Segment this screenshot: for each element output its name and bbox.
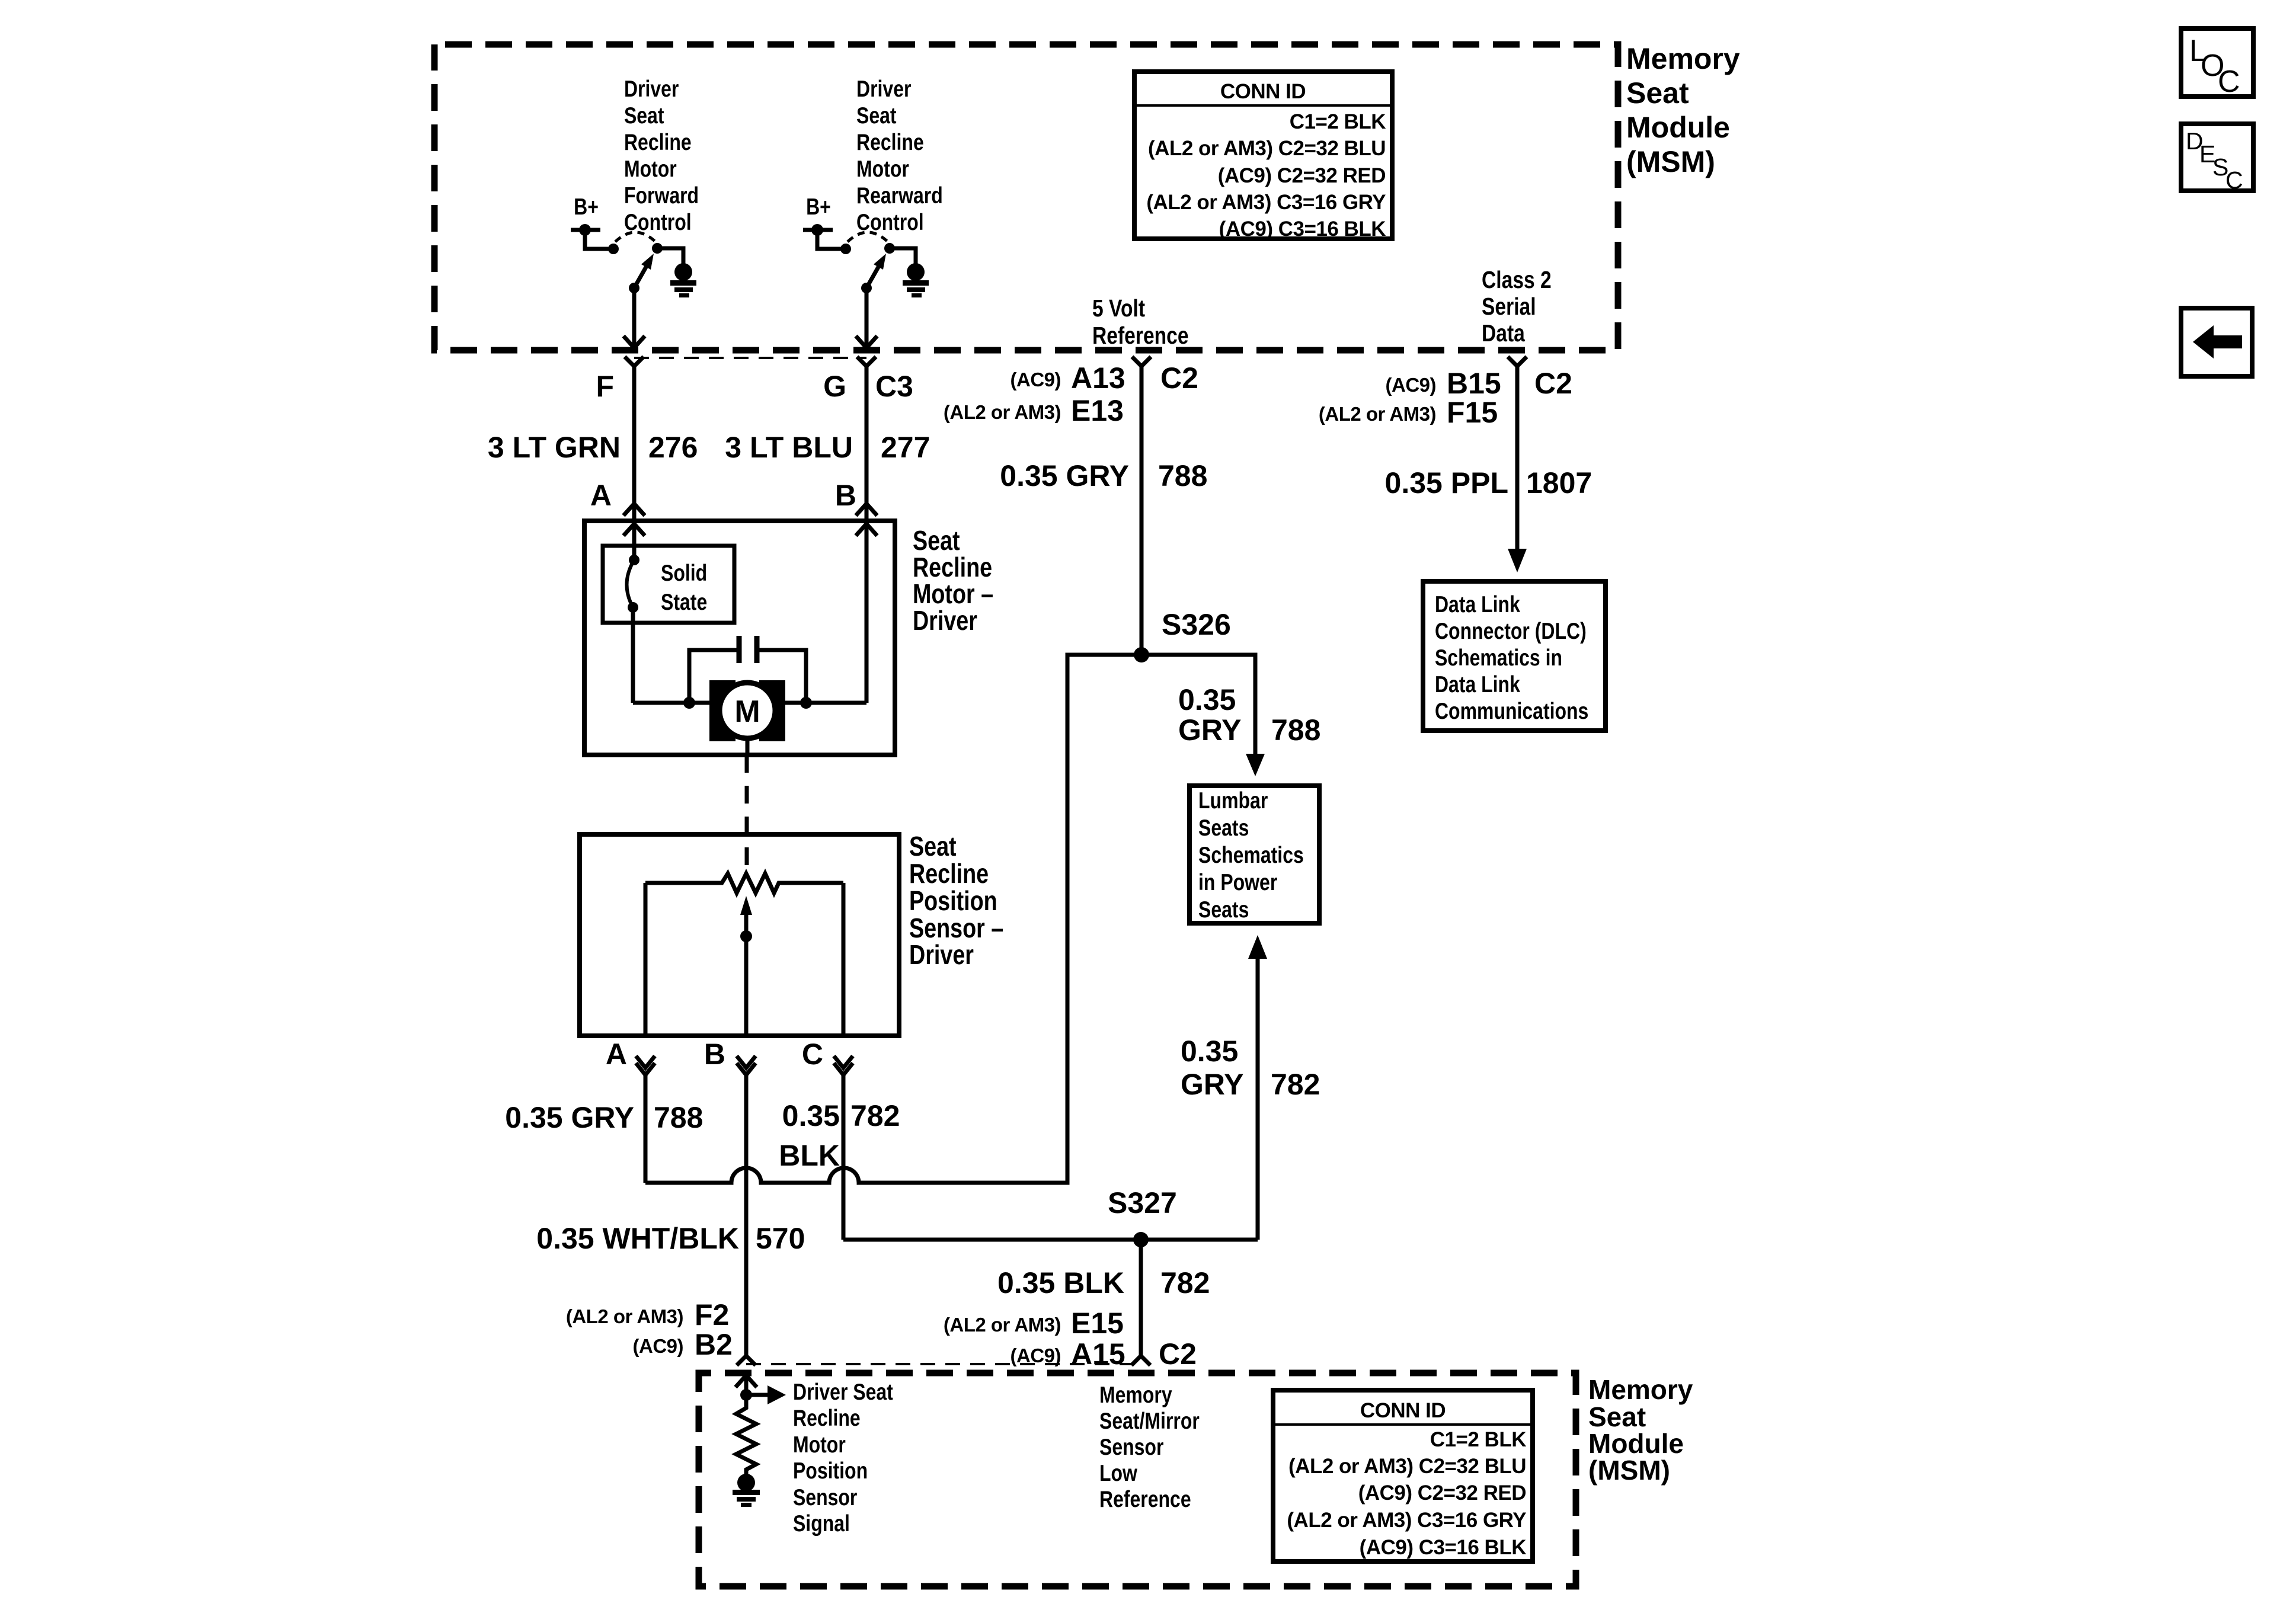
wire: switch SW2 output down to MSM border with arrow: [856, 288, 877, 348]
svg-text:A13: A13: [1071, 361, 1125, 395]
svg-text:(AC9): (AC9): [1011, 369, 1061, 391]
label: 5 Volt Reference: [1092, 295, 1189, 349]
ground G1: [670, 263, 696, 297]
label: Memory Seat Module (MSM) top: [1626, 42, 1740, 178]
svg-text:277: 277: [881, 431, 930, 464]
svg-text:State: State: [661, 589, 707, 615]
solid state switch box: [603, 546, 734, 623]
label: Seat Recline Position Sensor - Driver: [909, 831, 1003, 969]
pin labels at Class 2 connector: [1319, 367, 1572, 429]
svg-text:Class 2: Class 2: [1482, 266, 1552, 293]
wire 788 label (branch): 0.35 GRY: [1178, 683, 1320, 747]
svg-text:788: 788: [1158, 459, 1207, 492]
Lumbar Seats reference box: [1189, 786, 1319, 923]
svg-text:Reference: Reference: [1092, 322, 1189, 349]
svg-text:C1=2 BLK: C1=2 BLK: [1290, 110, 1386, 133]
svg-text:B+: B+: [806, 194, 831, 220]
svg-text:0.35 WHT/BLK: 0.35 WHT/BLK: [536, 1222, 739, 1255]
back arrow icon box: [2181, 308, 2252, 376]
wire 1807: 0.35 PPL label: [1385, 466, 1593, 500]
svg-text:782: 782: [850, 1099, 900, 1132]
svg-text:Forward: Forward: [624, 183, 699, 209]
pin labels at 5V reference connector: [944, 361, 1198, 427]
svg-text:(AL2 or AM3): (AL2 or AM3): [944, 1314, 1061, 1336]
svg-text:C1=2 BLK: C1=2 BLK: [1430, 1428, 1527, 1451]
wire 277: 3 LT BLU label: [725, 431, 930, 464]
svg-text:Reference: Reference: [1099, 1486, 1191, 1512]
svg-text:B+: B+: [574, 194, 599, 220]
wire 782 label (branch): 0.35 GRY: [1181, 1035, 1320, 1101]
connector C2 at 5 Volt Reference (Y symbol): [1132, 357, 1151, 366]
svg-text:(AC9): (AC9): [633, 1335, 684, 1357]
svg-text:3 LT BLU: 3 LT BLU: [725, 431, 853, 464]
svg-text:S327: S327: [1108, 1186, 1177, 1219]
svg-text:(AL2 or AM3): (AL2 or AM3): [566, 1305, 683, 1327]
svg-text:788: 788: [654, 1101, 703, 1134]
switch SW1: forward control switch: [585, 230, 683, 293]
wire: S326 right branch down to Lumbar box with arrow: [1141, 655, 1265, 776]
svg-text:C2: C2: [1160, 361, 1198, 395]
svg-text:Low: Low: [1099, 1460, 1137, 1486]
svg-text:0.35: 0.35: [1181, 1035, 1238, 1068]
svg-text:782: 782: [1271, 1068, 1320, 1101]
svg-text:Sensor: Sensor: [793, 1484, 858, 1510]
splice S327: [1108, 1186, 1177, 1247]
svg-text:(AL2 or AM3): (AL2 or AM3): [1319, 403, 1436, 425]
Memory Seat Module (MSM) bottom dashed box: [699, 1373, 1576, 1586]
svg-text:Position: Position: [793, 1458, 868, 1484]
svg-text:Memory: Memory: [1588, 1374, 1693, 1405]
label: Driver Seat Recline Motor Position Sensor Signal: [793, 1379, 893, 1537]
svg-text:(AL2 or AM3): (AL2 or AM3): [944, 401, 1061, 423]
resistor R2 (internal pull): [736, 1395, 756, 1474]
svg-text:B: B: [835, 479, 856, 512]
svg-text:Schematics: Schematics: [1198, 842, 1304, 868]
wire: S327 up branch to Lumbar box with arrow: [1248, 935, 1267, 1240]
wire 788 label (lower): 0.35 GRY: [505, 1101, 703, 1134]
CONN ID table (top): [1134, 72, 1392, 241]
svg-text:F: F: [596, 370, 614, 403]
wire: solid state to motor left terminal: [633, 607, 709, 703]
svg-text:(AL2 or AM3) C2=32 BLU: (AL2 or AM3) C2=32 BLU: [1288, 1455, 1526, 1478]
svg-text:(AC9) C2=32 RED: (AC9) C2=32 RED: [1218, 164, 1386, 187]
ground G2: [903, 263, 929, 297]
svg-text:A: A: [606, 1038, 627, 1071]
svg-text:(AC9) C2=32 RED: (AC9) C2=32 RED: [1358, 1481, 1526, 1505]
wire F/A (3 LT GRN 276): [632, 366, 637, 518]
svg-text:0.35: 0.35: [782, 1099, 840, 1132]
svg-text:Memory: Memory: [1099, 1382, 1172, 1408]
wire: sensor signal entry with up arrow: [736, 1375, 757, 1395]
svg-text:Motor –: Motor –: [913, 578, 993, 609]
svg-text:Recline: Recline: [793, 1405, 861, 1431]
svg-text:Data Link: Data Link: [1435, 671, 1520, 697]
in-line connector on wire B (double chevron): [737, 1056, 756, 1075]
label: Class 2 Serial Data: [1482, 266, 1552, 347]
svg-text:Rearward: Rearward: [856, 183, 943, 209]
svg-text:Recline: Recline: [913, 552, 992, 582]
svg-text:Seat/Mirror: Seat/Mirror: [1099, 1408, 1200, 1434]
svg-text:Connector (DLC): Connector (DLC): [1435, 618, 1587, 644]
svg-text:276: 276: [648, 431, 698, 464]
svg-text:E13: E13: [1071, 394, 1124, 427]
svg-text:M: M: [734, 694, 760, 729]
svg-text:Signal: Signal: [793, 1510, 850, 1537]
splice S326: [1134, 608, 1231, 662]
svg-text:F2: F2: [695, 1298, 729, 1331]
svg-text:Data: Data: [1482, 319, 1526, 347]
svg-text:5 Volt: 5 Volt: [1092, 295, 1145, 322]
svg-text:C: C: [2218, 65, 2240, 99]
svg-text:Recline: Recline: [856, 129, 924, 155]
svg-text:E15: E15: [1071, 1307, 1124, 1340]
capacitor across motor: [683, 636, 812, 709]
svg-text:(MSM): (MSM): [1626, 145, 1715, 178]
wire: sensor pin B down to MSM (0.35 WHT/BLK 570): [737, 1075, 756, 1365]
svg-text:Sensor: Sensor: [1099, 1434, 1164, 1460]
B+ terminal 2: [803, 194, 833, 236]
in-line connector on wire C (double chevron): [834, 1056, 853, 1075]
potentiometer wiper: [740, 896, 752, 1036]
seat recline motor box (driver): [584, 521, 895, 755]
svg-text:Solid: Solid: [661, 560, 707, 586]
motor M1: seat recline motor: [709, 680, 785, 755]
potentiometer resistor R1: [645, 873, 843, 1036]
Data Link Connector (DLC) reference box: [1423, 581, 1606, 731]
seat recline position sensor box (driver): [580, 834, 899, 1036]
svg-text:Seats: Seats: [1198, 815, 1249, 841]
svg-text:(MSM): (MSM): [1588, 1455, 1670, 1486]
svg-text:788: 788: [1271, 713, 1320, 747]
connector C3 pin G (Y symbol): [857, 357, 876, 366]
wire: sensor pin C to S327 line: [843, 1075, 1258, 1240]
svg-text:C: C: [802, 1038, 823, 1071]
svg-text:0.35 GRY: 0.35 GRY: [1000, 459, 1129, 492]
svg-text:Seat: Seat: [1626, 76, 1689, 110]
wire: S327 down to MSM (0.35 BLK 782): [1131, 1240, 1150, 1365]
ground G3 (internal): [733, 1474, 760, 1507]
LOC icon box: [2181, 28, 2253, 99]
svg-text:CONN ID: CONN ID: [1360, 1399, 1446, 1422]
svg-text:Recline: Recline: [909, 858, 989, 888]
svg-text:Seats: Seats: [1198, 897, 1249, 923]
wire 276: 3 LT GRN label: [488, 431, 698, 464]
B+ terminal 1: [571, 194, 600, 236]
svg-text:0.35 BLK: 0.35 BLK: [997, 1266, 1124, 1299]
wire: 5V reference down to S326: [1140, 366, 1144, 655]
CONN ID table (bottom): [1273, 1390, 1533, 1561]
svg-text:Seat: Seat: [624, 103, 664, 129]
svg-text:Driver: Driver: [909, 939, 974, 969]
svg-text:CONN ID: CONN ID: [1220, 80, 1306, 103]
svg-text:C2: C2: [1159, 1337, 1197, 1371]
svg-text:Motor: Motor: [624, 156, 677, 182]
svg-text:Motor: Motor: [856, 156, 909, 182]
svg-text:in Power: in Power: [1198, 869, 1277, 895]
svg-text:(AL2 or AM3) C3=16 GRY: (AL2 or AM3) C3=16 GRY: [1146, 191, 1386, 214]
wire 570 label: 0.35 WHT/BLK: [536, 1222, 805, 1255]
svg-text:A: A: [590, 479, 612, 512]
svg-text:F15: F15: [1447, 396, 1498, 429]
svg-text:BLK: BLK: [779, 1139, 840, 1172]
svg-text:GRY: GRY: [1181, 1068, 1244, 1101]
pin A entry arrows into motor box: [623, 504, 645, 546]
pin label G and C3: [823, 370, 913, 403]
svg-text:Lumbar: Lumbar: [1198, 788, 1268, 814]
svg-text:(AC9): (AC9): [1386, 374, 1437, 396]
svg-text:B15: B15: [1447, 367, 1501, 400]
svg-text:Control: Control: [856, 209, 924, 235]
svg-text:G: G: [823, 370, 846, 403]
in-line dashed connector link B2 to A15: [746, 1363, 1141, 1365]
pin labels F2/B2: [566, 1298, 733, 1361]
svg-text:A15: A15: [1071, 1337, 1125, 1371]
svg-text:Driver: Driver: [913, 605, 977, 635]
svg-text:Driver: Driver: [624, 76, 679, 102]
pin B entry arrows into motor box: [856, 504, 877, 703]
svg-text:Serial: Serial: [1482, 293, 1536, 320]
svg-text:0.35: 0.35: [1178, 683, 1236, 716]
switch SW2: rearward control switch: [817, 230, 916, 293]
svg-text:Memory: Memory: [1626, 42, 1740, 75]
svg-text:Module: Module: [1626, 111, 1730, 144]
svg-text:Seat: Seat: [856, 103, 897, 129]
connector C2 at Class 2 Serial Data (Y symbol): [1508, 357, 1527, 366]
svg-text:S326: S326: [1162, 608, 1231, 641]
svg-text:(AC9) C3=16 BLK: (AC9) C3=16 BLK: [1219, 217, 1386, 241]
svg-text:Recline: Recline: [624, 129, 692, 155]
label: Driver Seat Recline Motor Rearward Control: [856, 76, 943, 235]
wire 782 label: 0.35 BLK: [997, 1266, 1210, 1299]
svg-text:C2: C2: [1534, 367, 1572, 400]
connector C3 pin F (Y symbol): [625, 357, 644, 366]
svg-text:Seat: Seat: [913, 525, 960, 555]
svg-text:Communications: Communications: [1435, 698, 1588, 724]
wire: switch SW1 output down to MSM border with arrow: [623, 288, 645, 348]
svg-text:3 LT GRN: 3 LT GRN: [488, 431, 621, 464]
wire 788: 0.35 GRY label (upper): [1000, 459, 1207, 492]
svg-text:782: 782: [1160, 1266, 1210, 1299]
svg-text:570: 570: [756, 1222, 805, 1255]
svg-text:Position: Position: [909, 885, 997, 916]
svg-text:GRY: GRY: [1178, 713, 1242, 747]
wire 782 label at sensor: 0.35 BLK: [779, 1099, 900, 1172]
wire: Class 2 serial data down to DLC with arrow: [1508, 366, 1527, 572]
node: signal junction with arrow to label: [740, 1385, 786, 1404]
Memory Seat Module (MSM) top dashed box: [434, 44, 1618, 350]
svg-text:Data Link: Data Link: [1435, 591, 1520, 617]
dashed mechanical link: motor to position sensor: [745, 755, 749, 872]
label: Memory Seat/Mirror Sensor Low Reference: [1099, 1382, 1200, 1512]
svg-text:Seat: Seat: [909, 831, 957, 861]
svg-text:(AL2 or AM3) C2=32 BLU: (AL2 or AM3) C2=32 BLU: [1148, 137, 1386, 160]
svg-text:Driver: Driver: [856, 76, 912, 102]
svg-text:(AL2 or AM3) C3=16 GRY: (AL2 or AM3) C3=16 GRY: [1287, 1509, 1526, 1532]
svg-text:0.35 PPL: 0.35 PPL: [1385, 466, 1508, 500]
svg-text:Sensor –: Sensor –: [909, 913, 1003, 943]
wire G/B (3 LT BLU 277): [865, 366, 869, 518]
svg-text:Control: Control: [624, 209, 692, 235]
svg-text:C: C: [2225, 167, 2243, 194]
svg-text:0.35 GRY: 0.35 GRY: [505, 1101, 634, 1134]
svg-text:B: B: [704, 1038, 725, 1071]
svg-text:Driver Seat: Driver Seat: [793, 1379, 893, 1405]
label: Memory Seat Module (MSM) bottom: [1588, 1374, 1693, 1486]
label: Driver Seat Recline Motor Forward Control: [624, 76, 699, 235]
pin labels E15/A15/C2: [944, 1307, 1197, 1371]
svg-text:Schematics in: Schematics in: [1435, 645, 1562, 671]
svg-text:(AC9) C3=16 BLK: (AC9) C3=16 BLK: [1360, 1536, 1527, 1559]
svg-text:B2: B2: [695, 1328, 733, 1361]
in-line connector on wire A (double chevron): [636, 1056, 655, 1075]
wire: sensor pin A to S326 (with crossover bumps): [645, 655, 1141, 1183]
connector C3 in-line dashed link F to G: [634, 357, 866, 359]
svg-text:1807: 1807: [1526, 466, 1592, 500]
svg-text:C3: C3: [875, 370, 913, 403]
label: Seat Recline Motor - Driver: [913, 525, 993, 635]
svg-text:Motor: Motor: [793, 1432, 846, 1458]
DESC icon box: [2181, 124, 2253, 194]
wire: motor right terminal to pin B: [785, 701, 866, 705]
